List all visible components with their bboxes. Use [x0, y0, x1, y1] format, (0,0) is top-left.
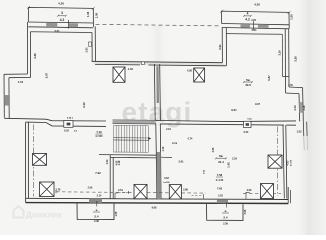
svg-text:2.86: 2.86 [183, 189, 188, 192]
svg-text:4.20: 4.20 [254, 3, 260, 7]
svg-text:6.02: 6.02 [64, 129, 69, 132]
svg-text:1.18: 1.18 [118, 160, 121, 165]
svg-text:1.04: 1.04 [106, 159, 109, 164]
svg-text:в: в [225, 209, 227, 213]
svg-text:2.06: 2.06 [247, 189, 252, 192]
svg-text:2.36: 2.36 [223, 222, 228, 225]
svg-text:3.05: 3.05 [244, 209, 247, 214]
svg-text:3: 3 [61, 11, 63, 15]
svg-text:31.4: 31.4 [218, 160, 224, 164]
svg-text:2.19: 2.19 [166, 128, 171, 131]
svg-text:4.33: 4.33 [128, 67, 134, 71]
svg-text:2.51: 2.51 [118, 189, 123, 192]
svg-text:2.91: 2.91 [218, 44, 222, 50]
svg-text:2.4: 2.4 [94, 214, 99, 218]
svg-text:h=150: h=150 [163, 182, 170, 184]
svg-text:2.56: 2.56 [88, 187, 93, 190]
svg-text:2.4: 2.4 [223, 215, 228, 219]
svg-text:h=1.50: h=1.50 [216, 179, 224, 182]
svg-text:3.61: 3.61 [251, 28, 257, 32]
svg-text:7.92: 7.92 [95, 171, 101, 175]
svg-text:4.28: 4.28 [251, 19, 256, 22]
svg-text:4.2: 4.2 [245, 18, 250, 22]
svg-text:9.37: 9.37 [255, 103, 260, 106]
svg-text:1.16: 1.16 [162, 146, 165, 151]
svg-text:3.05: 3.05 [212, 147, 215, 152]
svg-text:4: 4 [247, 12, 249, 16]
svg-text:4.2: 4.2 [60, 18, 65, 22]
svg-text:7.60: 7.60 [217, 186, 223, 190]
svg-text:1.05: 1.05 [115, 211, 118, 216]
svg-text:3.26: 3.26 [278, 50, 282, 56]
svg-text:4.03: 4.03 [287, 160, 290, 165]
svg-text:1.00: 1.00 [95, 12, 99, 18]
svg-text:3.26: 3.26 [293, 56, 297, 62]
svg-text:2.62: 2.62 [218, 194, 223, 197]
svg-text:1.00: 1.00 [290, 14, 294, 20]
svg-text:0.74: 0.74 [188, 138, 193, 141]
svg-text:40.0: 40.0 [245, 83, 251, 87]
svg-text:2.91: 2.91 [178, 160, 184, 164]
svg-text:5.87: 5.87 [267, 75, 271, 81]
svg-text:2.14: 2.14 [97, 195, 102, 198]
svg-text:3.26: 3.26 [302, 105, 306, 111]
svg-text:4.26: 4.26 [187, 68, 193, 72]
svg-text:3.62: 3.62 [164, 177, 169, 180]
svg-text:1.42: 1.42 [227, 162, 231, 168]
svg-text:2.46: 2.46 [293, 105, 297, 111]
svg-text:6.34 в: 6.34 в [67, 116, 74, 119]
svg-text:2.91: 2.91 [84, 47, 88, 53]
svg-text:стлк: стлк [172, 142, 178, 145]
svg-text:1.38: 1.38 [86, 11, 90, 17]
svg-text:9.51: 9.51 [231, 108, 237, 112]
svg-text:2.29: 2.29 [232, 158, 237, 161]
svg-text:2.36: 2.36 [94, 220, 99, 223]
svg-text:2.76: 2.76 [56, 189, 61, 192]
svg-text:4.20: 4.20 [58, 2, 64, 6]
svg-text:7.68: 7.68 [217, 173, 223, 177]
svg-text:9.68: 9.68 [152, 206, 157, 209]
svg-text:7.19: 7.19 [96, 130, 102, 134]
svg-text:1.52: 1.52 [296, 130, 302, 134]
svg-text:5.87: 5.87 [44, 72, 48, 78]
svg-text:0.52: 0.52 [244, 131, 249, 134]
svg-text:3.26: 3.26 [33, 53, 37, 59]
svg-text:Домклик: Домклик [26, 211, 62, 220]
svg-text:1.50: 1.50 [288, 84, 293, 87]
svg-text:в: в [96, 208, 98, 212]
svg-text:h=150: h=150 [96, 135, 104, 138]
svg-text:9.42: 9.42 [82, 102, 86, 108]
svg-text:h=150: h=150 [291, 159, 293, 166]
svg-text:1.51: 1.51 [18, 80, 24, 84]
